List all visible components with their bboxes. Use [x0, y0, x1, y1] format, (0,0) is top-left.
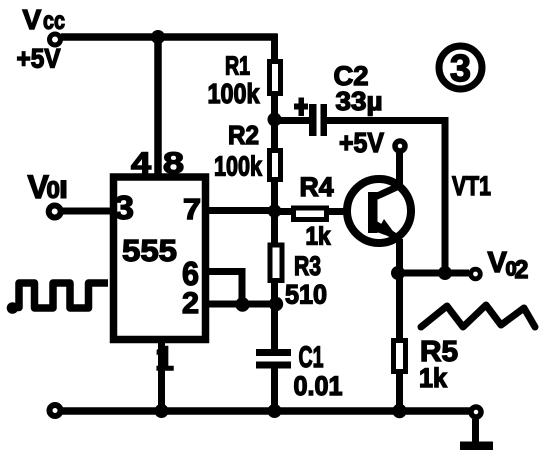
wire rail corner down to R1	[271, 34, 278, 62]
svg-text:33µ: 33µ	[336, 86, 383, 116]
node junction C1-rail	[268, 404, 282, 418]
node +5V collector terminal	[395, 141, 405, 151]
wire junction to C2 left plate	[278, 117, 309, 124]
waveform square wave at input	[7, 283, 108, 314]
node junction C2-emitter	[438, 266, 452, 280]
node junction R1/R2/C2	[268, 113, 282, 127]
svg-text:R2: R2	[228, 120, 259, 150]
wire R5 bottom to ground rail	[396, 371, 403, 412]
resistor R3	[270, 245, 282, 281]
capacitor C1	[256, 349, 291, 369]
wire C2 right plate to emitter node	[327, 121, 445, 274]
wire emitter down to node	[396, 239, 403, 277]
wire collector to VT1	[396, 152, 403, 186]
label + polarity mark of C2	[294, 98, 308, 117]
wire R4 right lead to VT1 base	[324, 208, 349, 215]
svg-text:555: 555	[122, 233, 177, 268]
wire junction to R4 left lead	[271, 208, 296, 215]
svg-text:7: 7	[183, 194, 201, 226]
svg-text:100k: 100k	[208, 78, 260, 109]
svg-text:100k: 100k	[214, 151, 262, 182]
node bottom-left common terminal	[50, 405, 61, 416]
svg-text:R3: R3	[294, 251, 321, 281]
svg-text:4: 4	[131, 147, 151, 180]
resistor R5	[394, 341, 406, 372]
node junction pin1-rail	[155, 404, 169, 418]
resistor R2	[270, 151, 281, 180]
wire emitter node to V02	[398, 270, 469, 277]
wire C1 bottom to ground rail	[271, 368, 278, 412]
node junction pin7/R2/R3/R4	[268, 204, 282, 218]
label V02	[488, 247, 529, 284]
svg-text:cc: cc	[43, 7, 65, 35]
svg-text:0.01: 0.01	[294, 371, 343, 401]
transistor VT1	[347, 179, 411, 243]
svg-text:+5V: +5V	[339, 127, 384, 158]
wire rail down to 555 pins 4/8	[154, 37, 162, 176]
svg-text:V: V	[23, 4, 42, 35]
wire pin 1 to ground rail	[158, 341, 165, 411]
svg-text:R1: R1	[225, 51, 250, 81]
label V01	[28, 169, 67, 205]
node Vcc supply terminal	[50, 34, 61, 45]
wire bottom ground rail	[62, 407, 470, 415]
svg-text:V: V	[488, 247, 508, 279]
svg-text:2: 2	[182, 287, 199, 320]
wire pin 6 over to pin 2	[206, 272, 242, 305]
svg-text:8: 8	[163, 147, 184, 180]
svg-text:C1: C1	[299, 341, 324, 374]
wire R1 bottom to R2 top	[271, 94, 278, 150]
wire emitter node down to R5	[396, 273, 403, 341]
svg-text:VT1: VT1	[452, 171, 491, 201]
node junction R5-rail	[392, 404, 406, 418]
label circled figure number 3	[439, 46, 482, 90]
wire terminal to ground symbol	[472, 419, 479, 444]
svg-text:0: 0	[47, 177, 60, 204]
wire V01 to pin 3	[61, 208, 113, 215]
waveform sawtooth at output	[421, 305, 535, 327]
wire top supply rail	[61, 33, 277, 41]
svg-text:1k: 1k	[419, 363, 448, 393]
svg-text:+5V: +5V	[17, 44, 61, 74]
svg-text:R4: R4	[300, 172, 334, 202]
wire pin 2 to divider chain	[206, 301, 278, 308]
op-amp/IC U1 555 timer body	[114, 177, 206, 340]
wire pin 7 to divider junction	[206, 207, 278, 214]
node junction pin2/R3/C1	[269, 297, 283, 311]
svg-text:2: 2	[515, 256, 529, 284]
node emitter junction	[391, 266, 405, 280]
resistor R4	[294, 208, 327, 220]
node V01 input terminal	[49, 206, 61, 218]
svg-text:510: 510	[285, 280, 327, 310]
ground	[460, 442, 493, 451]
svg-text:3: 3	[114, 189, 134, 226]
label Vcc	[23, 4, 66, 35]
node junction rail to pin 4/8	[151, 30, 165, 44]
svg-text:1k: 1k	[306, 223, 331, 251]
wire R2 bottom to pin7 junction	[271, 179, 278, 214]
wire pin7 junction down to R3	[271, 208, 278, 245]
capacitor C2	[309, 104, 327, 136]
node V02 output terminal	[471, 269, 481, 279]
node junction pins 6-2	[235, 297, 249, 311]
resistor R1	[270, 62, 281, 94]
wire R3 bottom through pin2 junction to C1	[271, 280, 278, 350]
svg-text:3: 3	[450, 48, 471, 90]
node ground terminal	[471, 407, 481, 417]
